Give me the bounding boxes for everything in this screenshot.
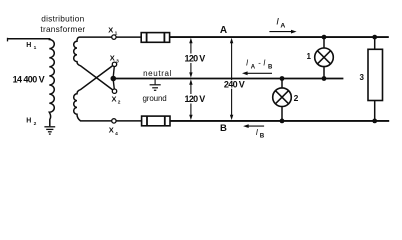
voltage arrow 240V: [230, 38, 233, 120]
svg-text:120 V: 120 V: [185, 54, 206, 64]
wire line B: [170, 120, 389, 122]
wire X1 to fuse: [116, 36, 141, 38]
svg-text:neutral: neutral: [143, 69, 172, 78]
wire X3 to neutral junction: [113, 66, 114, 77]
terminal X3: [110, 53, 119, 66]
svg-text:2: 2: [294, 93, 299, 103]
svg-text:-: -: [258, 58, 261, 67]
junction lamp2 top: [280, 76, 285, 81]
voltage arrow 120V lower: [189, 79, 192, 120]
current IA-IB arrow (neutral): [242, 71, 272, 75]
load 3 resistor: [368, 37, 383, 121]
svg-text:3: 3: [360, 73, 365, 82]
voltage arrow 120V upper: [189, 38, 192, 78]
svg-text:240 V: 240 V: [224, 80, 245, 90]
wire primary line from H1: [8, 38, 51, 42]
svg-text:I: I: [276, 17, 279, 28]
svg-text:A: A: [220, 25, 227, 36]
primary winding coil: [49, 39, 54, 127]
svg-text:X: X: [109, 126, 114, 135]
label 240 V: [222, 80, 246, 90]
svg-text:B: B: [268, 65, 273, 71]
current IB label: [256, 128, 265, 139]
junction neutral center tap: [111, 76, 117, 82]
terminal X4: [109, 119, 118, 137]
terminal H1 label: [26, 42, 36, 51]
label distribution transformer: [40, 14, 85, 34]
wire X2 to neutral junction: [113, 80, 114, 90]
label 120 V upper: [183, 54, 208, 64]
lamp 1: [315, 37, 334, 78]
wire line A: [170, 36, 389, 38]
label 120 V lower: [183, 94, 208, 104]
terminal X2: [112, 89, 121, 106]
svg-text:1: 1: [34, 45, 37, 51]
svg-text:2: 2: [118, 100, 121, 106]
fuse (line B): [142, 116, 170, 126]
svg-text:distribution: distribution: [41, 14, 84, 24]
svg-text:B: B: [260, 132, 265, 139]
svg-text:X: X: [108, 25, 113, 34]
svg-text:2: 2: [34, 121, 37, 127]
secondary winding upper coil: [74, 37, 113, 90]
terminal X1: [108, 25, 117, 39]
svg-text:H: H: [26, 42, 31, 49]
wire neutral: [113, 78, 343, 80]
svg-text:1: 1: [307, 52, 312, 61]
ground (primary H2): [44, 127, 55, 134]
svg-text:X: X: [110, 53, 115, 62]
junction load3 bottom: [372, 119, 377, 124]
svg-text:120 V: 120 V: [185, 94, 206, 104]
junction load3 top: [372, 35, 377, 40]
svg-text:A: A: [251, 65, 256, 71]
svg-text:H: H: [26, 117, 31, 124]
junction lamp1 bottom: [322, 76, 327, 81]
current IA-IB label: [246, 58, 273, 70]
junction lamp1 top: [322, 35, 327, 40]
ground (neutral): [150, 79, 161, 90]
terminal H2 label: [26, 117, 36, 127]
current IB arrow: [243, 124, 264, 128]
svg-text:4: 4: [115, 131, 118, 137]
current IA label: [276, 17, 285, 30]
wire X4 to fuse: [116, 120, 142, 122]
lamp 2: [273, 79, 292, 121]
current IA arrow: [269, 30, 296, 34]
fuse (line A): [141, 33, 169, 43]
svg-text:transformer: transformer: [40, 24, 85, 34]
svg-text:B: B: [220, 123, 227, 134]
svg-text:A: A: [280, 23, 285, 30]
svg-text:14 400 V: 14 400 V: [13, 74, 45, 84]
svg-text:X: X: [112, 95, 117, 104]
svg-text:ground: ground: [143, 94, 167, 103]
junction lamp2 bottom: [280, 119, 285, 124]
secondary winding lower coil: [74, 66, 113, 121]
